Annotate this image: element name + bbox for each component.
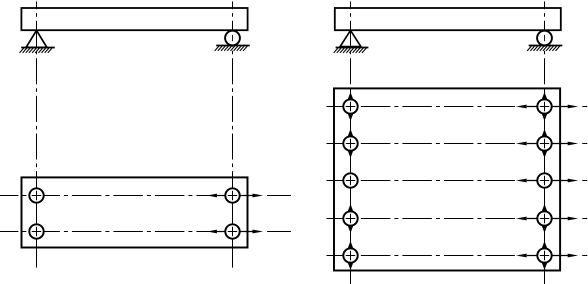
plate / lap joint plan view (left figure) <box>22 177 248 247</box>
force arrow pointing right at hole row 5 (right plate, outside edge) <box>552 254 587 258</box>
rivet hole R5R (right plate right column row 5) <box>537 248 551 262</box>
rivet hole R2R (right plate right column row 2) <box>537 136 551 150</box>
roller support ground with hatching (left figure) <box>215 46 250 51</box>
vertical force arrow pair at right-column hole row 5 (right plate) <box>541 241 547 270</box>
force arrow pointing left at hole row 4 (right plate) <box>516 217 537 221</box>
centerline row 1 (left plate) horizontal dash-dot y=195.5 <box>0 195 225 197</box>
centerline support-A (left figure) vertical dash-dot x=36.5 <box>36 2 38 268</box>
force arrow pointing right at hole row 4 (right plate, outside edge) <box>552 217 587 221</box>
rivet hole R2L (right plate left column row 2) <box>343 136 357 150</box>
rivet hole R5L (right plate left column row 5) <box>343 248 357 262</box>
vertical force arrow pair at right-column hole row 2 (right plate) <box>541 129 547 158</box>
centerline support-C (right figure) vertical dash-dot x=350.5 <box>350 2 352 284</box>
roller support (left figure) circle <box>225 31 240 46</box>
force arrow pointing right at hole row 1 (right plate, outside edge) <box>552 105 587 109</box>
centerline row 2 (right plate) horizontal dash-dot y=143.5 <box>327 143 517 145</box>
beam (right figure, simply supported) <box>335 8 561 30</box>
force arrow pointing left at hole row 1 (left plate) <box>207 194 225 198</box>
centerline row 2 (left plate) horizontal dash-dot y=231.5 <box>0 231 225 233</box>
force arrow pointing right at hole row 2 (left plate, outside edge) <box>240 230 291 234</box>
force arrow pointing left at hole row 2 (left plate) <box>207 230 225 234</box>
rivet hole R1R (right plate right column row 1) <box>537 99 551 113</box>
vertical force arrow pair at left-column hole row 5 (right plate) <box>347 241 353 270</box>
rivet hole L3 (left plate bottom-left) <box>29 224 43 238</box>
rivet hole R3L (right plate left column row 3) <box>343 173 357 187</box>
force arrow pointing left at hole row 2 (right plate) <box>516 142 537 146</box>
force arrow pointing right at hole row 2 (right plate, outside edge) <box>552 142 587 146</box>
roller support ground with hatching (right figure) <box>527 46 562 51</box>
rivet hole L1 (left plate top-left) <box>29 188 43 202</box>
rivet hole L2 (left plate top-right) <box>225 188 239 202</box>
pin support ground with hatching (right figure) <box>334 48 369 53</box>
pin support ground with hatching (left figure) <box>20 48 55 53</box>
vertical force arrow pair at right-column hole row 1 (right plate) <box>541 92 547 121</box>
beam (left figure, simply supported) <box>21 8 247 30</box>
pin support (left figure) triangle <box>26 30 47 47</box>
force arrow pointing right at hole row 3 (right plate, outside edge) <box>552 179 587 183</box>
vertical force arrow pair at right-column hole row 4 (right plate) <box>541 204 547 233</box>
force arrow pointing left at hole row 5 (right plate) <box>516 254 537 258</box>
centerline row 1 (right plate) horizontal dash-dot y=106.5 <box>327 106 517 108</box>
centerline row 5 (right plate) horizontal dash-dot y=255.5 <box>327 255 517 257</box>
vertical force arrow pair at left-column hole row 4 (right plate) <box>347 204 353 233</box>
rivet hole R4R (right plate right column row 4) <box>537 211 551 225</box>
pin support (right figure) triangle <box>340 30 361 46</box>
roller support (right figure) circle <box>537 31 552 46</box>
force arrow pointing left at hole row 1 (right plate) <box>516 105 537 109</box>
rivet hole L4 (left plate bottom-right) <box>225 224 239 238</box>
vertical force arrow pair at left-column hole row 2 (right plate) <box>347 129 353 158</box>
centerline support-D (right figure) vertical dash-dot x=544.5 <box>544 2 546 284</box>
centerline row 3 (right plate) horizontal dash-dot y=180.5 <box>327 180 517 182</box>
force arrow pointing left at hole row 3 (right plate) <box>516 179 537 183</box>
centerline row 4 (right plate) horizontal dash-dot y=218.5 <box>327 218 517 220</box>
rivet hole R4L (right plate left column row 4) <box>343 211 357 225</box>
vertical force arrow pair at left-column hole row 1 (right plate) <box>347 92 353 121</box>
rivet hole R1L (right plate left column row 1) <box>343 99 357 113</box>
rivet hole R3R (right plate right column row 3) <box>537 173 551 187</box>
plate / butt joint plan view (right figure) <box>334 88 560 270</box>
force arrow pointing right at hole row 1 (left plate, outside edge) <box>240 194 291 198</box>
centerline support-B (left figure) vertical dash-dot x=232.5 <box>232 2 234 268</box>
